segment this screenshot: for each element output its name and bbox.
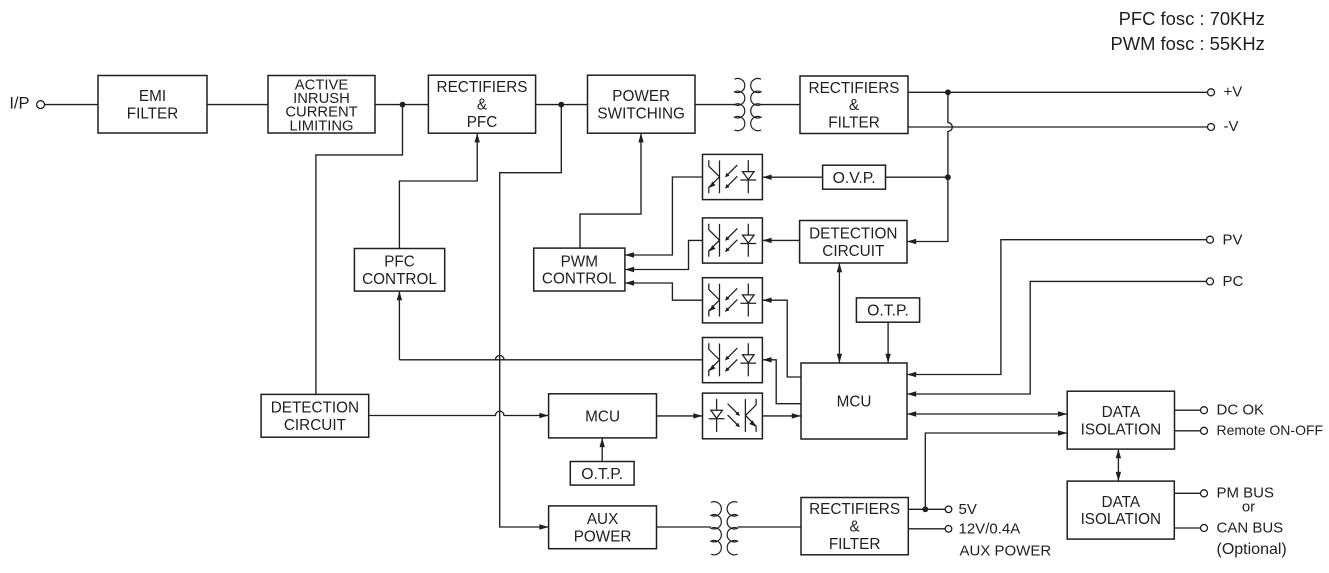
optocoupler OC3 bbox=[703, 278, 763, 323]
optocoupler OC2 bbox=[703, 218, 763, 263]
wire DETECTION CIRCUIT to optocoupler OC2 bbox=[762, 239, 799, 241]
wire 5V node to DATA ISOLATION bbox=[925, 433, 1067, 509]
terminal -V bbox=[1208, 124, 1215, 131]
arrowhead into OC1 bbox=[762, 175, 771, 180]
svg-text:SWITCHING: SWITCHING bbox=[597, 105, 685, 122]
wire OC3 to PWM CONTROL bbox=[625, 283, 703, 300]
wire MCU to OC3 bbox=[762, 300, 801, 377]
svg-text:MCU: MCU bbox=[585, 408, 620, 425]
svg-text:or: or bbox=[1242, 499, 1255, 516]
svg-text:ISOLATION: ISOLATION bbox=[1081, 421, 1161, 438]
wire CAN BUS bbox=[1174, 527, 1200, 529]
svg-text:12V/0.4A: 12V/0.4A bbox=[959, 520, 1021, 537]
arrowhead up into DETECTION CIRCUIT bbox=[837, 263, 842, 272]
wire EMI FILTER to ACTIVE INRUSH bbox=[207, 104, 268, 106]
terminal 5V bbox=[945, 506, 952, 513]
optocoupler OC4 bbox=[703, 338, 763, 383]
wire OC4 to PFC CONTROL bbox=[399, 355, 702, 359]
transformer T2 primary winding bbox=[711, 502, 721, 555]
arrowhead into MCU right bbox=[907, 411, 916, 416]
block EMI FILTER bbox=[98, 76, 207, 134]
wire node B to AUX POWER bbox=[500, 105, 562, 527]
terminal PM BUS bbox=[1201, 490, 1208, 497]
wire PFC CONTROL feed vertical bbox=[398, 291, 400, 360]
transformer T1 secondary winding bbox=[751, 78, 761, 130]
block AUX POWER bbox=[549, 506, 657, 549]
block RECTIFIERS & FILTER (main) bbox=[800, 76, 908, 134]
arrowhead into MCU bottom bbox=[600, 438, 605, 447]
svg-text:PC: PC bbox=[1223, 273, 1244, 290]
arrowhead into RECTIFIERS PFC bbox=[475, 133, 480, 142]
wire POWER SWITCHING to T1 bbox=[695, 104, 735, 106]
wire PFC CONTROL to RECTIFIERS PFC bbox=[399, 133, 477, 248]
block DETECTION CIRCUIT (input) bbox=[261, 394, 369, 437]
wire Remote ON-OFF bbox=[1175, 430, 1201, 432]
wire 12V output bbox=[908, 528, 945, 530]
wire O.T.P. to MCU (primary) bbox=[601, 438, 603, 462]
wire OC5 to MCU bbox=[762, 415, 801, 417]
wire MCU to OC4 bbox=[762, 360, 801, 404]
wire DETECTION CIRCUIT to MCU (bidirectional) bbox=[838, 263, 840, 363]
wire O.V.P. to optocoupler OC1 bbox=[762, 176, 822, 178]
wire DATA ISOLATION link (bidirectional) bbox=[1117, 449, 1119, 481]
block DATA ISOLATION (upper) bbox=[1067, 391, 1174, 449]
wire PC to MCU bbox=[907, 281, 1206, 394]
wire O.T.P. to MCU bbox=[887, 322, 889, 363]
block PFC CONTROL bbox=[354, 249, 444, 292]
wire DETECTION CIRCUIT to MCU (primary) bbox=[369, 411, 549, 415]
arrowhead up into DATA ISOLATION upper bbox=[1116, 449, 1121, 458]
wire OC1 to PWM CONTROL bbox=[625, 177, 703, 255]
svg-text:PWM: PWM bbox=[561, 253, 598, 270]
svg-text:PFC: PFC bbox=[467, 114, 498, 131]
wire T2 to RECTIFIERS FILTER (aux) bbox=[738, 526, 802, 528]
svg-text:O.V.P.: O.V.P. bbox=[833, 170, 876, 187]
svg-text:LIMITING: LIMITING bbox=[289, 118, 353, 134]
wire PWM CONTROL to POWER SWITCHING bbox=[580, 133, 641, 248]
svg-text:RECTIFIERS: RECTIFIERS bbox=[809, 80, 900, 97]
arrowhead into DATA ISOLATION pin2 bbox=[1058, 430, 1067, 435]
arrowhead into PFC CONTROL bbox=[397, 291, 402, 300]
svg-text:DC OK: DC OK bbox=[1217, 402, 1265, 419]
wire -V output bbox=[908, 126, 1207, 128]
wire +V sense vertical bbox=[907, 92, 952, 241]
svg-text:PV: PV bbox=[1223, 231, 1243, 248]
svg-text:&: & bbox=[477, 97, 487, 114]
wire +V output bbox=[908, 91, 1207, 93]
terminal I/P bbox=[37, 101, 45, 109]
arrowhead into MCU from OTP bbox=[885, 354, 890, 363]
terminal PC bbox=[1207, 278, 1214, 285]
arrowhead down into DATA ISOLATION lower bbox=[1116, 472, 1121, 481]
svg-text:POWER: POWER bbox=[612, 88, 670, 105]
svg-text:FILTER: FILTER bbox=[829, 536, 881, 553]
transformer T2 secondary winding bbox=[727, 502, 737, 555]
arrowhead into MCU from PV bbox=[907, 372, 916, 377]
svg-text:Remote ON-OFF: Remote ON-OFF bbox=[1217, 422, 1324, 438]
block O.T.P. (output) bbox=[856, 298, 919, 322]
terminal 12V bbox=[945, 526, 952, 533]
svg-text:(Optional): (Optional) bbox=[1217, 541, 1287, 558]
arrowhead into OC5 bbox=[693, 413, 702, 418]
block DETECTION CIRCUIT (output) bbox=[800, 221, 907, 264]
svg-text:AUX POWER: AUX POWER bbox=[960, 543, 1052, 560]
arrowhead into AUX POWER bbox=[539, 524, 548, 529]
wire node A to DETECTION CIRCUIT (input) bbox=[316, 105, 403, 395]
terminal +V bbox=[1208, 89, 1215, 96]
svg-text:CONTROL: CONTROL bbox=[362, 271, 437, 288]
svg-text:&: & bbox=[849, 97, 859, 114]
wire RECTIFIERS PFC to POWER SWITCHING bbox=[536, 104, 588, 106]
arrowhead into MCU left bbox=[792, 413, 801, 418]
svg-text:FILTER: FILTER bbox=[828, 115, 880, 132]
svg-text:FILTER: FILTER bbox=[127, 105, 179, 122]
wire T1 to RECTIFIERS FILTER bbox=[761, 104, 800, 106]
arrowhead into POWER SWITCHING bbox=[638, 133, 643, 142]
svg-text:CIRCUIT: CIRCUIT bbox=[284, 417, 346, 434]
svg-text:5V: 5V bbox=[959, 501, 977, 518]
wire PV to MCU bbox=[907, 240, 1206, 375]
terminal PV bbox=[1207, 236, 1214, 243]
transformer T1 primary winding bbox=[735, 78, 745, 130]
wire ACTIVE INRUSH to RECTIFIERS PFC bbox=[375, 104, 428, 106]
svg-text:DATA: DATA bbox=[1102, 494, 1141, 511]
optocoupler OC1 bbox=[703, 154, 763, 199]
svg-text:PFC: PFC bbox=[384, 254, 415, 271]
arrowhead into MCU (primary) bbox=[539, 413, 548, 418]
svg-text:PFC fosc : 70KHz: PFC fosc : 70KHz bbox=[1119, 8, 1265, 29]
optocoupler OC5 bbox=[703, 393, 763, 439]
arrowhead into OC3 right bbox=[762, 298, 771, 303]
svg-text:O.T.P.: O.T.P. bbox=[581, 466, 623, 483]
svg-text:PWM fosc : 55KHz: PWM fosc : 55KHz bbox=[1110, 33, 1264, 54]
arrowhead into PWM CONTROL pin3 bbox=[625, 280, 634, 285]
svg-text:AUX: AUX bbox=[587, 511, 618, 528]
wire OVP node to O.V.P. bbox=[886, 176, 948, 178]
junction OVP node bbox=[945, 174, 951, 180]
wire OC2 to PWM CONTROL bbox=[625, 240, 703, 269]
svg-text:DETECTION: DETECTION bbox=[271, 400, 359, 417]
block RECTIFIERS & FILTER (aux) bbox=[801, 498, 908, 555]
svg-text:CAN BUS: CAN BUS bbox=[1217, 519, 1284, 536]
wire DC OK bbox=[1175, 409, 1201, 411]
arrowhead into MCU from PC bbox=[907, 391, 916, 396]
terminal CAN BUS bbox=[1201, 525, 1208, 532]
arrowhead into DETECTION CIRCUIT bbox=[907, 239, 916, 244]
block RECTIFIERS & PFC bbox=[428, 75, 535, 133]
svg-text:I/P: I/P bbox=[9, 95, 29, 113]
svg-text:EMI: EMI bbox=[139, 88, 166, 105]
block MCU (primary) bbox=[549, 394, 657, 438]
terminal DC OK bbox=[1201, 407, 1208, 414]
arrowhead into PWM CONTROL pin2 bbox=[625, 267, 634, 272]
svg-text:ISOLATION: ISOLATION bbox=[1081, 511, 1161, 528]
junction node A bbox=[400, 102, 406, 108]
arrowhead into PWM CONTROL pin1 bbox=[625, 252, 634, 257]
junction node B bbox=[558, 102, 564, 108]
arrowhead into OC4 right bbox=[762, 357, 771, 362]
arrowhead into OC2 bbox=[762, 238, 771, 243]
arrowhead into DATA ISOLATION left bbox=[1058, 411, 1067, 416]
block DATA ISOLATION (lower) bbox=[1067, 481, 1174, 539]
svg-text:&: & bbox=[849, 519, 859, 536]
block MCU (secondary) bbox=[801, 363, 907, 439]
block POWER SWITCHING bbox=[588, 75, 696, 133]
svg-text:RECTIFIERS: RECTIFIERS bbox=[437, 79, 528, 96]
terminal Remote ON-OFF bbox=[1201, 427, 1208, 434]
svg-text:DETECTION: DETECTION bbox=[809, 226, 897, 243]
wire 5V output bbox=[908, 508, 945, 510]
svg-text:O.T.P.: O.T.P. bbox=[867, 303, 909, 320]
arrowhead down into MCU bbox=[837, 354, 842, 363]
block O.V.P. bbox=[823, 165, 886, 189]
junction +V node bbox=[945, 89, 951, 95]
svg-text:+V: +V bbox=[1224, 83, 1243, 100]
block O.T.P. (primary) bbox=[570, 462, 634, 486]
wire AUX POWER to T2 bbox=[657, 526, 712, 528]
svg-text:CONTROL: CONTROL bbox=[542, 271, 617, 288]
svg-text:RECTIFIERS: RECTIFIERS bbox=[809, 501, 900, 518]
block ACTIVE INRUSH CURRENT LIMITING bbox=[268, 76, 375, 135]
svg-text:MCU: MCU bbox=[837, 393, 872, 410]
block PWM CONTROL bbox=[534, 248, 625, 291]
svg-text:POWER: POWER bbox=[574, 528, 632, 545]
wire MCU to DATA ISOLATION (bidirectional) bbox=[907, 413, 1067, 415]
svg-text:DATA: DATA bbox=[1102, 404, 1141, 421]
wire I/P to EMI FILTER bbox=[44, 104, 98, 106]
wire MCU (primary) to OC5 bbox=[657, 415, 703, 417]
junction 5V node bbox=[922, 506, 928, 512]
svg-text:CIRCUIT: CIRCUIT bbox=[822, 243, 884, 260]
svg-text:-V: -V bbox=[1224, 118, 1239, 135]
wire PM BUS bbox=[1174, 492, 1200, 494]
